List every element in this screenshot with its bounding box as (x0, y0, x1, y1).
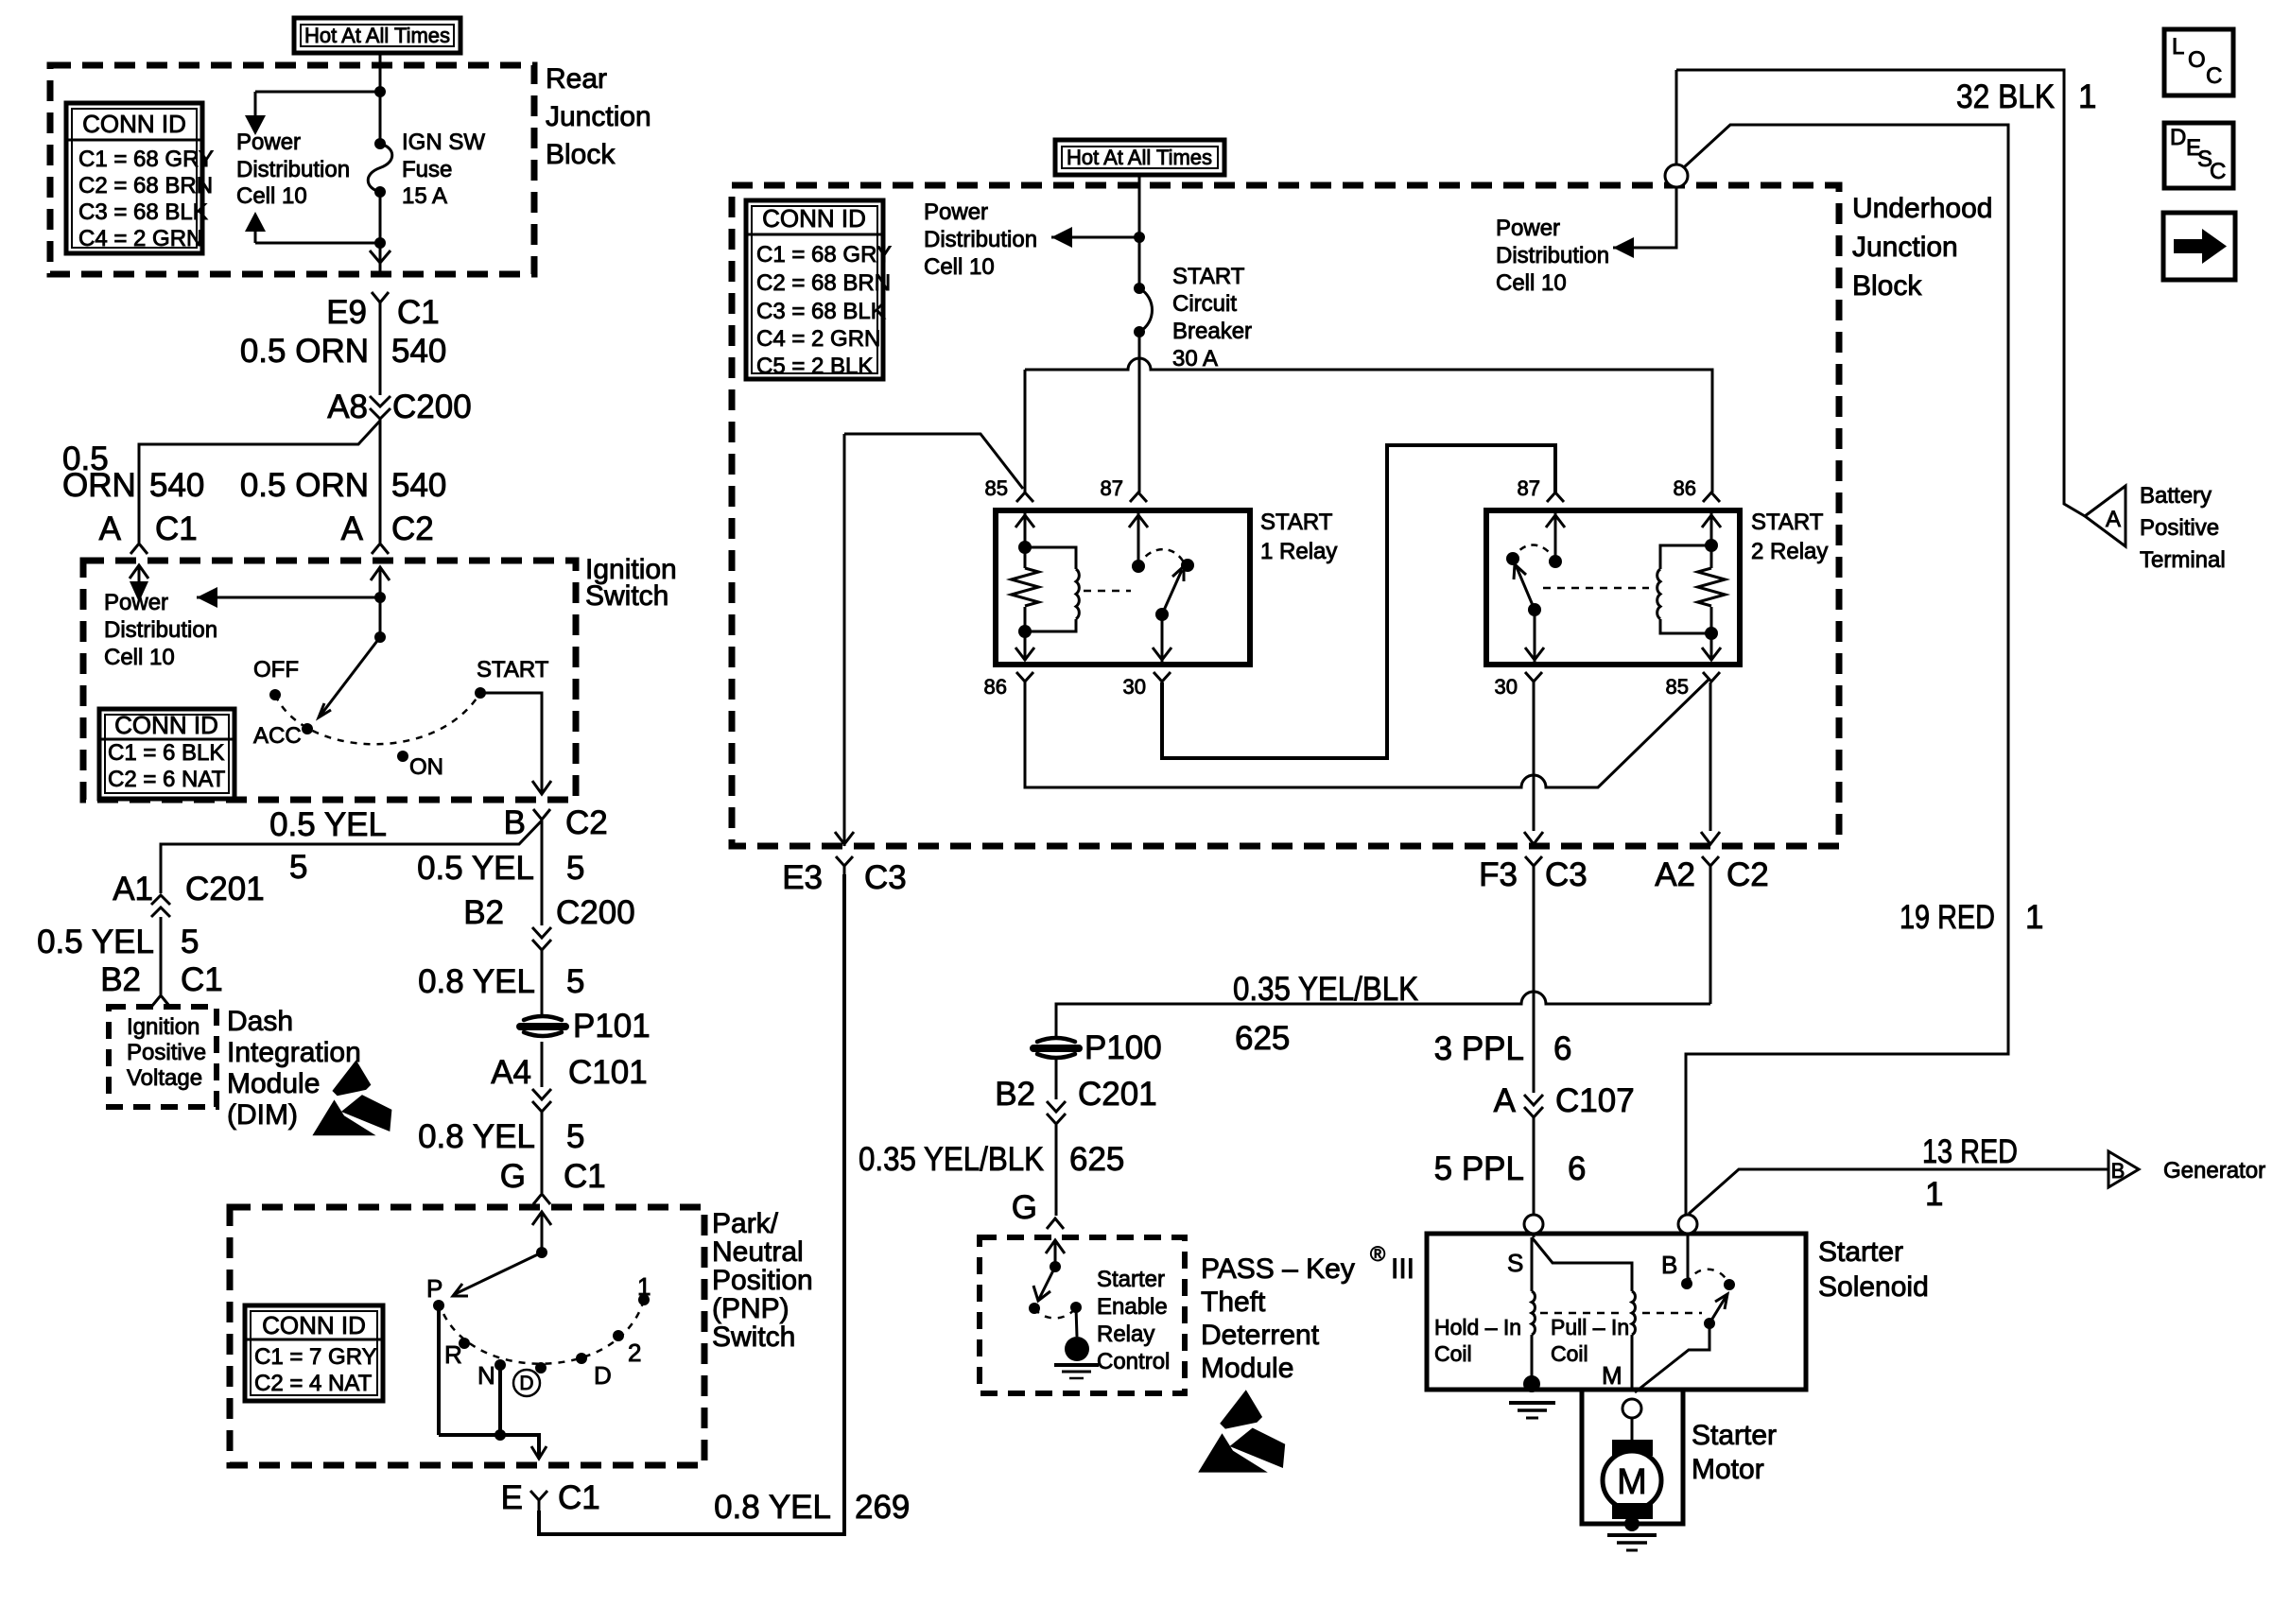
svg-text:CONN ID: CONN ID (262, 1311, 366, 1339)
svg-text:85: 85 (1666, 675, 1689, 699)
svg-text:B: B (2111, 1159, 2126, 1183)
svg-text:86: 86 (1674, 476, 1696, 500)
svg-text:CONN ID: CONN ID (762, 204, 866, 233)
svg-text:30 A: 30 A (1172, 346, 1218, 371)
svg-text:87: 87 (1518, 476, 1540, 500)
svg-text:Cell 10: Cell 10 (924, 254, 995, 280)
svg-text:Distribution: Distribution (104, 617, 217, 643)
svg-text:Deterrent: Deterrent (1201, 1320, 1320, 1351)
svg-text:B: B (504, 804, 526, 841)
svg-text:P100: P100 (1084, 1029, 1162, 1066)
svg-text:®: ® (1370, 1242, 1385, 1266)
svg-text:540: 540 (149, 467, 204, 504)
svg-text:Switch: Switch (712, 1322, 795, 1353)
svg-text:Hot At All Times: Hot At All Times (1067, 146, 1212, 169)
svg-text:3 PPL: 3 PPL (1434, 1030, 1524, 1067)
svg-text:32 BLK: 32 BLK (1956, 78, 2055, 115)
svg-text:PASS – Key: PASS – Key (1201, 1253, 1355, 1285)
svg-text:1: 1 (1925, 1176, 1943, 1213)
svg-text:0.35 YEL/BLK: 0.35 YEL/BLK (859, 1141, 1044, 1178)
svg-text:A: A (1494, 1082, 1517, 1119)
svg-text:A1: A1 (113, 871, 153, 907)
svg-text:C1: C1 (564, 1158, 606, 1195)
svg-text:5: 5 (566, 1118, 584, 1155)
svg-text:Module: Module (227, 1068, 320, 1099)
svg-text:IGN SW: IGN SW (402, 130, 485, 155)
svg-text:1 Relay: 1 Relay (1260, 539, 1337, 564)
svg-text:C201: C201 (185, 871, 265, 907)
svg-text:A8: A8 (327, 389, 368, 425)
svg-text:625: 625 (1235, 1020, 1290, 1057)
svg-text:0.5 ORN: 0.5 ORN (240, 467, 369, 504)
svg-text:Starter: Starter (1818, 1236, 1903, 1268)
svg-text:G: G (500, 1158, 526, 1195)
svg-text:(DIM): (DIM) (227, 1099, 298, 1131)
svg-text:0.5 YEL: 0.5 YEL (37, 924, 154, 960)
svg-text:C2: C2 (565, 804, 608, 841)
svg-text:C2 = 68 BRN: C2 = 68 BRN (756, 270, 891, 296)
svg-text:5: 5 (566, 850, 584, 887)
svg-text:Fuse: Fuse (402, 157, 452, 182)
svg-text:B2: B2 (995, 1076, 1035, 1113)
svg-text:Voltage: Voltage (127, 1065, 202, 1091)
svg-text:Cell 10: Cell 10 (1496, 270, 1567, 296)
svg-text:Dash: Dash (227, 1006, 293, 1037)
svg-text:0.8 YEL: 0.8 YEL (418, 1118, 535, 1155)
svg-text:D: D (519, 1373, 533, 1394)
svg-text:CONN ID: CONN ID (114, 711, 218, 739)
svg-text:B2: B2 (463, 894, 504, 931)
svg-text:Power: Power (924, 199, 988, 225)
svg-text:Block: Block (546, 139, 616, 170)
svg-text:E9: E9 (326, 294, 367, 331)
svg-text:Power: Power (104, 590, 168, 615)
svg-text:0.8 YEL: 0.8 YEL (714, 1489, 831, 1526)
svg-text:Positive: Positive (127, 1040, 206, 1065)
svg-text:C: C (2210, 159, 2226, 184)
svg-text:G: G (1012, 1189, 1037, 1226)
svg-text:Block: Block (1852, 270, 1922, 302)
svg-text:S: S (1507, 1249, 1523, 1277)
svg-text:0.35 YEL/BLK: 0.35 YEL/BLK (1233, 971, 1418, 1008)
svg-text:Underhood: Underhood (1852, 193, 1992, 224)
svg-text:C2 = 4 NAT: C2 = 4 NAT (254, 1371, 373, 1396)
svg-text:B2: B2 (100, 961, 141, 998)
svg-text:Pull – In: Pull – In (1551, 1315, 1629, 1339)
svg-text:Relay: Relay (1097, 1322, 1154, 1347)
svg-text:1: 1 (2025, 899, 2043, 936)
svg-text:E: E (501, 1479, 523, 1516)
svg-text:Theft: Theft (1201, 1287, 1266, 1318)
svg-text:A4: A4 (491, 1054, 531, 1091)
svg-text:269: 269 (855, 1489, 910, 1526)
svg-text:Cell 10: Cell 10 (236, 183, 307, 209)
svg-text:Power: Power (236, 130, 301, 155)
svg-text:Position: Position (712, 1265, 813, 1296)
svg-text:Ignition: Ignition (127, 1014, 200, 1040)
svg-text:87: 87 (1101, 476, 1123, 500)
svg-text:85: 85 (985, 476, 1008, 500)
svg-text:86: 86 (984, 675, 1007, 699)
svg-text:30: 30 (1123, 675, 1146, 699)
svg-text:F3: F3 (1479, 856, 1518, 893)
svg-text:E3: E3 (782, 859, 823, 896)
svg-text:C200: C200 (556, 894, 635, 931)
svg-text:5: 5 (566, 963, 584, 1000)
svg-text:OFF: OFF (253, 657, 299, 682)
svg-text:Park/: Park/ (712, 1208, 779, 1239)
svg-text:ON: ON (409, 754, 443, 780)
svg-text:Integration: Integration (227, 1037, 361, 1068)
svg-text:START: START (477, 657, 549, 682)
svg-text:D: D (594, 1361, 612, 1390)
svg-text:2: 2 (628, 1339, 641, 1367)
svg-text:0.8 YEL: 0.8 YEL (418, 963, 535, 1000)
svg-text:Distribution: Distribution (924, 227, 1037, 252)
svg-text:III: III (1391, 1253, 1414, 1285)
svg-text:ORN: ORN (62, 467, 136, 504)
svg-text:0.5 ORN: 0.5 ORN (240, 333, 369, 370)
svg-text:2 Relay: 2 Relay (1751, 539, 1828, 564)
svg-text:A: A (99, 510, 122, 547)
svg-text:C2: C2 (1726, 856, 1769, 893)
svg-text:6: 6 (1553, 1030, 1571, 1067)
svg-text:START: START (1260, 510, 1333, 535)
svg-text:A2: A2 (1655, 856, 1695, 893)
svg-text:START: START (1172, 264, 1245, 289)
svg-text:C: C (2206, 63, 2222, 89)
svg-text:C2 = 6 NAT: C2 = 6 NAT (108, 767, 226, 792)
svg-text:P: P (426, 1274, 442, 1303)
svg-text:1: 1 (637, 1272, 651, 1301)
svg-text:Control: Control (1097, 1349, 1170, 1374)
svg-text:19 RED: 19 RED (1900, 899, 1995, 936)
svg-text:C201: C201 (1078, 1076, 1157, 1113)
svg-text:6: 6 (1568, 1150, 1586, 1187)
svg-text:5: 5 (289, 849, 307, 886)
svg-text:C3 = 68 BLK: C3 = 68 BLK (78, 199, 208, 225)
svg-text:1: 1 (2078, 78, 2096, 115)
svg-text:M: M (1602, 1361, 1622, 1390)
svg-text:Hold – In: Hold – In (1434, 1315, 1521, 1339)
svg-text:Circuit: Circuit (1172, 291, 1237, 317)
svg-text:ACC: ACC (253, 723, 302, 749)
svg-text:C2: C2 (391, 510, 434, 547)
svg-text:5 PPL: 5 PPL (1434, 1150, 1524, 1187)
svg-text:C1: C1 (397, 294, 440, 331)
svg-text:Junction: Junction (1852, 232, 1958, 263)
svg-text:C1: C1 (155, 510, 198, 547)
svg-text:0.5 YEL: 0.5 YEL (269, 806, 387, 843)
svg-text:START: START (1751, 510, 1824, 535)
svg-text:Power: Power (1496, 216, 1560, 241)
svg-text:Switch: Switch (585, 580, 668, 612)
svg-text:B: B (1661, 1251, 1677, 1279)
svg-text:A: A (2106, 507, 2121, 532)
svg-text:Cell 10: Cell 10 (104, 645, 175, 670)
svg-text:C1: C1 (558, 1479, 600, 1516)
svg-text:C200: C200 (392, 389, 472, 425)
svg-text:(PNP): (PNP) (712, 1293, 789, 1324)
svg-text:L: L (2172, 34, 2184, 60)
svg-text:M: M (1617, 1462, 1647, 1502)
svg-text:540: 540 (391, 333, 446, 370)
svg-text:15 A: 15 A (402, 183, 447, 209)
svg-text:Junction: Junction (546, 101, 651, 132)
svg-text:C1: C1 (181, 961, 223, 998)
svg-text:Starter: Starter (1692, 1420, 1777, 1451)
svg-text:A: A (341, 510, 364, 547)
svg-text:C107: C107 (1555, 1082, 1635, 1119)
svg-text:Neutral: Neutral (712, 1236, 804, 1268)
svg-text:C4 = 2 GRN: C4 = 2 GRN (78, 226, 202, 251)
svg-text:C5 = 2 BLK: C5 = 2 BLK (756, 354, 873, 379)
svg-text:D: D (2170, 125, 2186, 150)
svg-text:C3: C3 (1545, 856, 1588, 893)
svg-text:C1 = 7 GRY: C1 = 7 GRY (254, 1344, 377, 1370)
svg-text:Generator: Generator (2163, 1158, 2265, 1183)
svg-text:540: 540 (391, 467, 446, 504)
svg-text:Motor: Motor (1692, 1454, 1764, 1485)
svg-text:CONN ID: CONN ID (82, 110, 186, 138)
svg-text:Terminal: Terminal (2140, 547, 2226, 573)
svg-text:Rear: Rear (546, 63, 607, 95)
svg-text:Distribution: Distribution (1496, 243, 1609, 268)
svg-text:Starter: Starter (1097, 1267, 1165, 1292)
svg-text:Coil: Coil (1434, 1341, 1472, 1366)
svg-text:P101: P101 (573, 1008, 651, 1045)
svg-text:Enable: Enable (1097, 1294, 1168, 1320)
svg-text:C4 = 2 GRN: C4 = 2 GRN (756, 326, 880, 352)
svg-text:Coil: Coil (1551, 1341, 1588, 1366)
svg-text:Breaker: Breaker (1172, 319, 1252, 344)
svg-text:625: 625 (1069, 1141, 1124, 1178)
svg-text:Battery: Battery (2140, 483, 2212, 509)
svg-text:C3: C3 (864, 859, 907, 896)
svg-text:R: R (444, 1340, 462, 1369)
svg-text:C2 = 68 BRN: C2 = 68 BRN (78, 173, 213, 199)
svg-text:C101: C101 (568, 1054, 648, 1091)
svg-text:Module: Module (1201, 1353, 1293, 1384)
svg-text:C3 = 68 BLK: C3 = 68 BLK (756, 299, 886, 324)
svg-text:13 RED: 13 RED (1922, 1133, 2018, 1170)
svg-text:C1 = 6 BLK: C1 = 6 BLK (108, 740, 224, 766)
svg-text:5: 5 (181, 924, 199, 960)
svg-text:O: O (2188, 47, 2206, 73)
svg-text:0.5 YEL: 0.5 YEL (417, 850, 534, 887)
svg-text:N: N (477, 1361, 495, 1390)
svg-text:Hot At All Times: Hot At All Times (304, 24, 450, 47)
svg-text:Solenoid: Solenoid (1818, 1271, 1929, 1303)
svg-text:C1 = 68 GRY: C1 = 68 GRY (78, 147, 214, 172)
svg-text:Distribution: Distribution (236, 157, 350, 182)
svg-text:Positive: Positive (2140, 515, 2219, 541)
svg-text:C1 = 68 GRY: C1 = 68 GRY (756, 242, 892, 268)
svg-text:30: 30 (1495, 675, 1518, 699)
